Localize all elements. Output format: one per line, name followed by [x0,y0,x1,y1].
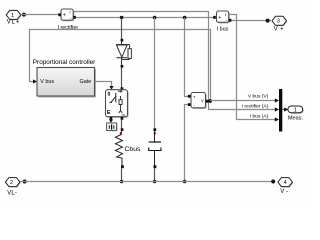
node diode branch [120,16,124,20]
svg-text:Cbus: Cbus [125,146,141,153]
svg-text:V -: V - [280,189,288,195]
wire V meas + input from top conductor [185,18,189,97]
node capacitor bottom [153,180,157,184]
node dot before port 4 [271,180,275,184]
svg-text:+: + [63,13,66,19]
node C bus branch [153,16,157,20]
wire feedback V bus to controller [30,30,211,101]
switch emitter down to C bus resistor branch [121,117,124,120]
node zigzag bottom [120,180,124,184]
node V bus output [208,99,212,103]
port 4 V- [278,178,293,195]
svg-text:V +: V + [274,26,284,32]
wire I bus signal i to mux (I bus (A)) [229,15,277,120]
wire mux to outport Meas [282,109,284,111]
svg-text:V bus (V): V bus (V) [248,94,269,100]
port 2 VL- [5,178,20,197]
svg-text:m: m [122,113,125,117]
svg-text:3: 3 [277,18,280,24]
svg-text:2: 2 [10,180,13,186]
voltage measurement V bus [188,93,209,110]
node dot before port 3 [266,19,270,23]
svg-text:I rectifier (A): I rectifier (A) [242,103,269,109]
wire port1 to I rectifier [21,14,59,16]
terminator block [107,123,118,131]
svg-text:I bus: I bus [217,27,229,33]
arrowhead into controller input [33,79,37,83]
wire I rectifier signal i to mux (I rectifier (A)) [73,12,276,110]
svg-text:V bus: V bus [40,79,54,85]
wire V meas - input to bottom rail [185,105,189,182]
svg-text:1: 1 [11,13,14,19]
current measurement I bus [213,11,231,33]
wire conductor I rectifier to I bus [76,17,213,19]
arrowhead into switch gate [109,86,113,90]
outport 1 Meas [288,106,304,121]
wire capacitor to bottom rail [154,168,156,181]
svg-text:1: 1 [294,108,297,114]
node dot after port 2 [23,180,27,184]
svg-text:Proportional controller: Proportional controller [33,59,96,66]
node dot after port 1 [22,13,26,17]
subsystem Proportional controller [33,59,96,98]
capacitor element [149,128,161,168]
wire diode to switch collector [121,68,123,88]
svg-text:I bus (A): I bus (A) [250,113,269,119]
port 3 V+ [272,16,287,32]
svg-text:Meas.: Meas. [288,115,304,121]
bottom rail VL- to V- [20,181,273,183]
svg-text:E: E [107,110,111,116]
capacitor branch from top conductor [154,18,156,129]
svg-text:VL-: VL- [7,191,17,197]
mux [275,89,283,132]
port 1 VL+ [6,10,21,25]
svg-text:g: g [108,91,111,96]
current measurement I rectifier [57,9,78,31]
node V meas bottom [183,180,187,184]
svg-text:VL+: VL+ [7,20,20,26]
svg-text:+: + [193,96,196,101]
wire I bus to port V+ [231,20,271,22]
node V meas branch [183,16,187,20]
diode D with RC snubber [116,18,131,68]
switch m output to terminator [110,117,113,120]
wire V bus (V) to mux [210,100,276,102]
wire Gate to switch g input [95,82,112,87]
svg-text:4: 4 [284,180,287,186]
switch IGBT block [106,90,129,118]
series branch C bus (zigzag) [115,128,141,168]
wire zigzag to bottom rail [121,168,123,181]
svg-text:Gate: Gate [80,79,92,85]
svg-text:+: + [218,15,221,21]
